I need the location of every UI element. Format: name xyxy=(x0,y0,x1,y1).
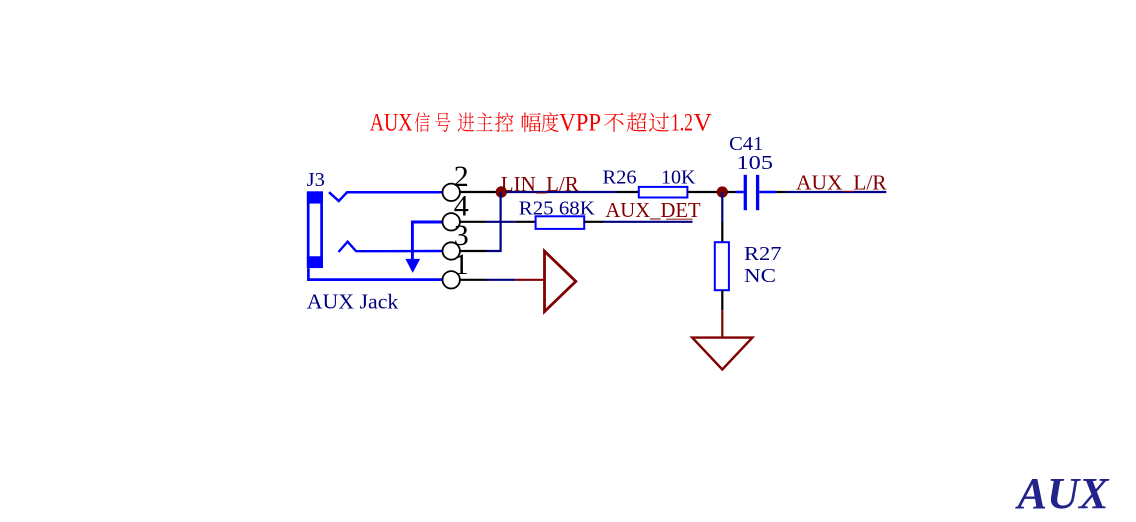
wire net AUX_DET xyxy=(604,221,693,223)
svg-text:4: 4 xyxy=(454,189,469,222)
svg-text:AUX_DET: AUX_DET xyxy=(605,198,700,222)
node junction LIN_L/R xyxy=(496,186,507,197)
pin 2 circle xyxy=(443,184,460,201)
arrow down (jack tip mark) xyxy=(405,259,420,273)
svg-text:3: 3 xyxy=(454,219,469,252)
wire R27 bottom black xyxy=(721,290,723,310)
svg-text:AUX_L/R: AUX_L/R xyxy=(796,170,887,194)
wire pin 3 corner up to junction xyxy=(487,192,501,251)
annotation red text AUX signal note (latin runs) xyxy=(370,109,712,136)
wire junction down to R27 navy xyxy=(721,192,723,222)
wire jack bottom to pin 1 xyxy=(308,268,442,280)
wire net AUX_L/R xyxy=(786,191,886,193)
svg-text:R27: R27 xyxy=(744,243,782,265)
pin 3 circle xyxy=(443,242,460,259)
resistor R27 body xyxy=(715,242,729,290)
svg-text:VPP: VPP xyxy=(559,109,601,136)
svg-text:R26: R26 xyxy=(603,166,637,188)
wire R26 right lead xyxy=(687,191,717,193)
wire R25 right lead xyxy=(584,221,603,223)
svg-text:1.2: 1.2 xyxy=(671,109,693,136)
wire pin 4 stub xyxy=(460,221,487,223)
svg-text:NC: NC xyxy=(744,265,776,287)
svg-text:AUX Jack: AUX Jack xyxy=(307,290,399,314)
connector J3 jack symbol body xyxy=(307,191,323,268)
svg-text:1: 1 xyxy=(454,248,469,281)
output triangle marker xyxy=(545,251,576,311)
wire pin 1 to output triangle xyxy=(515,279,544,281)
wire R27 to ground xyxy=(721,310,723,337)
pin 1 circle xyxy=(443,271,460,288)
pin 4 circle xyxy=(443,213,460,230)
wire pin 1 navy segment xyxy=(487,279,516,281)
wire junction to C41 xyxy=(727,191,736,193)
net label AUX_DET underline artifact xyxy=(666,218,693,220)
wire C41 right lead xyxy=(776,191,786,193)
annotation red text chinese glyphs xyxy=(415,112,669,132)
wire pin 4 to R25 xyxy=(487,221,516,223)
resistor R25 body xyxy=(536,216,585,229)
wire LIN_L/R to R26 xyxy=(506,191,617,193)
wire pin 2 stub xyxy=(460,191,497,193)
ground symbol xyxy=(692,338,752,370)
wire pin 3 stub xyxy=(460,250,487,252)
wire pin 1 stub xyxy=(460,279,487,281)
jack contact switch for pin 3 xyxy=(339,242,443,252)
wire R26 left lead xyxy=(617,191,639,193)
jack contact switch for pin 2 xyxy=(329,192,442,201)
svg-text:AUX: AUX xyxy=(370,109,413,136)
wire R25 left lead xyxy=(515,221,536,223)
svg-text:AUX: AUX xyxy=(1014,469,1110,518)
svg-text:R25 68K: R25 68K xyxy=(519,197,595,219)
svg-text:105: 105 xyxy=(737,152,774,174)
svg-text:V: V xyxy=(694,109,712,136)
svg-text:LIN_L/R: LIN_L/R xyxy=(501,172,580,196)
capacitor C41 xyxy=(736,175,776,210)
svg-text:J3: J3 xyxy=(307,169,325,191)
wire junction down to R27 black xyxy=(721,222,723,243)
svg-text:10K: 10K xyxy=(661,166,696,188)
wire pin 4 to arrow xyxy=(412,222,442,259)
resistor R26 body xyxy=(639,187,688,198)
node junction AUX xyxy=(717,186,728,197)
svg-text:2: 2 xyxy=(454,160,469,193)
